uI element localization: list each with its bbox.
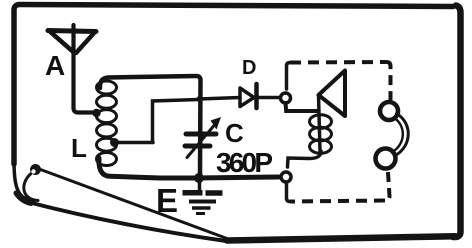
svg-text:E: E bbox=[156, 182, 178, 219]
svg-text:D: D bbox=[242, 57, 256, 79]
svg-text:360P: 360P bbox=[216, 147, 273, 178]
svg-text:A: A bbox=[45, 50, 65, 81]
svg-text:L: L bbox=[71, 133, 87, 163]
svg-text:C: C bbox=[225, 118, 244, 148]
